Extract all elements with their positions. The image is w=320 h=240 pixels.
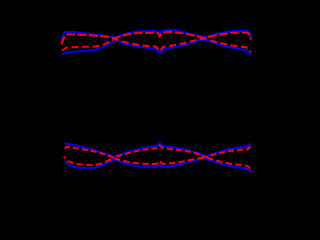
bottom panel lower band blue curve [65, 158, 251, 172]
band structure figure, black background [0, 0, 255, 202]
top panel lower band blue curve [62, 40, 251, 56]
bottom panel upper band red curve [65, 145, 251, 157]
bottom panel upper band blue curve [65, 143, 251, 157]
bottom panel lower band red curve [64, 157, 251, 170]
top panel lower band red curve [62, 39, 251, 53]
top panel upper band red curve [62, 32, 252, 45]
top panel upper band blue curve [61, 30, 251, 40]
